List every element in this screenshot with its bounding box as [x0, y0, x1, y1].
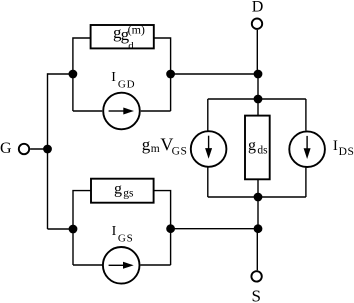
wire I_GS right lead — [141, 264, 171, 266]
wire I_GD left lead — [73, 110, 102, 112]
svg-text:G: G — [0, 140, 12, 157]
wire top horizontal gd-loop to D-rail — [171, 73, 258, 75]
svg-text:g: g — [114, 181, 122, 198]
svg-text:g: g — [248, 137, 256, 154]
wire lower-left elbow into gate loop — [48, 228, 74, 230]
svg-text:GS: GS — [118, 233, 134, 245]
svg-text:g: g — [142, 135, 151, 154]
current source I_GD circle — [103, 93, 140, 130]
arrow of I_GD — [109, 110, 124, 112]
wire I_GS left lead — [73, 264, 102, 266]
wire left vertical from top rail down past G to lower loop — [47, 73, 49, 229]
terminal D circle — [252, 19, 262, 29]
wire bottom horizontal source-rail — [171, 228, 258, 230]
wire gds top lead — [257, 99, 259, 116]
wire IDS top lead — [305, 99, 307, 131]
terminal S circle — [251, 271, 261, 281]
wire G terminal to junction — [30, 148, 47, 150]
wire top horizontal G-rail into gd-loop — [48, 73, 73, 75]
wire D vertical — [256, 30, 258, 74]
svg-text:gs: gs — [123, 187, 134, 199]
wire IDS bottom lead — [305, 168, 307, 197]
svg-text:ds: ds — [257, 145, 268, 157]
svg-text:I: I — [111, 70, 116, 85]
arrow of IDS — [306, 136, 308, 151]
svg-text:d: d — [128, 40, 134, 52]
arrow of gmVGS — [208, 136, 210, 151]
wire box1 left lead — [73, 38, 91, 111]
resistor box g_gs — [91, 179, 154, 203]
wire gmVgs top lead — [207, 99, 209, 131]
svg-text:S: S — [252, 286, 261, 303]
junction dot G — [43, 145, 52, 154]
junction dot top-left — [69, 70, 78, 79]
junction dot top-mid — [166, 70, 175, 79]
wire box2 right lead — [154, 191, 171, 265]
wire box2 left lead — [73, 191, 91, 265]
svg-text:GS: GS — [172, 145, 188, 157]
svg-text:D: D — [252, 0, 264, 16]
wire S vertical — [257, 197, 259, 229]
svg-text:(m): (m) — [128, 23, 145, 37]
current source I_GS circle — [103, 247, 140, 284]
svg-text:I: I — [333, 138, 338, 154]
terminal G circle — [19, 144, 29, 154]
current source IDS circle — [289, 131, 325, 167]
wire I_GD right lead — [141, 110, 171, 112]
junction dot parallel-combo top — [254, 95, 263, 104]
current source gmVGS circle — [191, 131, 227, 167]
resistor box g_ds — [245, 116, 270, 180]
wire gmVgs bottom lead — [207, 168, 209, 198]
junction dot lower-mid — [166, 224, 175, 233]
wire parallel-combo top bar — [208, 98, 306, 100]
svg-text:GD: GD — [118, 78, 135, 90]
junction dot parallel-combo bottom — [254, 193, 263, 202]
junction dot lower-left — [69, 225, 78, 234]
arrow of I_GS — [109, 264, 124, 266]
junction dot top-right — [254, 70, 263, 79]
svg-text:m: m — [151, 143, 160, 155]
svg-text:I: I — [112, 224, 117, 239]
svg-text:DS: DS — [339, 146, 354, 158]
resistor box gg_d^(m) — [91, 25, 154, 48]
wire gds bottom lead — [257, 179, 259, 197]
junction dot lower-right — [254, 224, 263, 233]
wire parallel-combo bottom bar — [208, 196, 306, 198]
wire box1 right lead — [154, 38, 171, 111]
